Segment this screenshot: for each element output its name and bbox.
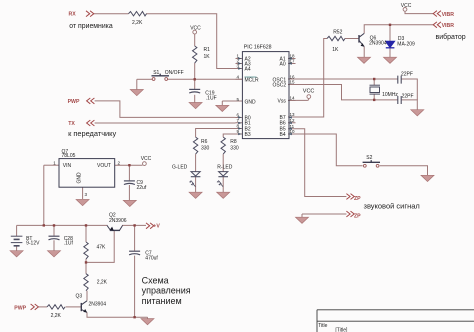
svg-text:B3: B3 (245, 132, 251, 138)
svg-text:+V: +V (153, 224, 160, 230)
svg-text:к передатчику: к передатчику (68, 129, 116, 138)
svg-text:78L05: 78L05 (62, 153, 76, 159)
svg-text:ON/OFF: ON/OFF (165, 70, 184, 76)
svg-text:22uf: 22uf (137, 185, 147, 191)
svg-text:Схема: Схема (142, 276, 169, 286)
svg-text:22PF: 22PF (402, 93, 414, 99)
svg-text:2,2K: 2,2K (51, 313, 62, 319)
svg-text:Title: Title (318, 323, 327, 329)
svg-text:1K: 1K (204, 54, 211, 60)
svg-text:14: 14 (290, 96, 296, 101)
svg-text:VIBR: VIBR (442, 23, 455, 29)
svg-text:12: 12 (290, 118, 296, 123)
svg-text:S1: S1 (153, 70, 159, 76)
svg-text:Q3: Q3 (76, 293, 83, 299)
svg-text:R52: R52 (333, 29, 342, 35)
svg-text:вибратор: вибратор (436, 33, 466, 41)
svg-text:VCC: VCC (401, 3, 412, 9)
svg-text:2,2K: 2,2K (132, 20, 143, 26)
svg-text:R8: R8 (230, 139, 237, 145)
svg-text:OSC2: OSC2 (273, 82, 287, 88)
svg-text:R6: R6 (201, 139, 208, 145)
svg-text:ZP: ZP (354, 196, 361, 202)
svg-text:S2: S2 (366, 155, 372, 161)
svg-text:MA-209: MA-209 (397, 41, 415, 47)
svg-text:.1UF: .1UF (206, 95, 217, 101)
svg-text:.1Uf: .1Uf (64, 241, 74, 247)
svg-text:звуковой сигнал: звуковой сигнал (364, 202, 420, 211)
svg-text:управления: управления (142, 286, 191, 296)
svg-text:10MHz: 10MHz (382, 92, 398, 98)
svg-text:4: 4 (237, 75, 240, 80)
svg-text:A0: A0 (280, 61, 286, 67)
svg-text:VCC: VCC (190, 26, 201, 32)
svg-text:1K: 1K (332, 47, 339, 53)
svg-text:RX: RX (69, 11, 77, 17)
svg-text:2N3904: 2N3904 (89, 302, 107, 308)
svg-text:[Title]: [Title] (335, 328, 348, 332)
svg-text:PIC 16F628: PIC 16F628 (244, 45, 272, 51)
svg-text:TX: TX (68, 121, 75, 127)
svg-text:от приемника: от приемника (69, 23, 113, 30)
svg-text:GND: GND (245, 99, 257, 105)
svg-text:15: 15 (290, 80, 296, 85)
svg-text:22PF: 22PF (401, 71, 413, 77)
svg-text:VOUT: VOUT (97, 163, 111, 169)
svg-text:питанием: питанием (142, 296, 182, 306)
svg-text:2N3904: 2N3904 (369, 41, 387, 47)
svg-text:B6: B6 (280, 121, 286, 127)
svg-text:PWP: PWP (14, 305, 26, 311)
svg-text:A4: A4 (245, 66, 251, 72)
svg-text:47K: 47K (97, 244, 107, 250)
svg-text:R1: R1 (204, 47, 211, 53)
svg-text:ZP: ZP (354, 214, 361, 220)
svg-text:2N3906: 2N3906 (109, 218, 127, 224)
svg-text:VCC: VCC (303, 88, 315, 94)
svg-text:GND: GND (77, 172, 83, 184)
svg-text:2,2K: 2,2K (97, 280, 108, 286)
svg-text:VIBR: VIBR (442, 12, 455, 18)
svg-text:R-LED: R-LED (217, 164, 232, 170)
svg-text:470uf: 470uf (145, 255, 158, 261)
svg-text:3: 3 (85, 192, 88, 197)
svg-text:13: 13 (290, 112, 296, 117)
svg-text:330: 330 (201, 146, 210, 152)
svg-text:B4: B4 (280, 132, 286, 138)
svg-text:9-12V: 9-12V (26, 241, 40, 247)
svg-text:VCC: VCC (141, 156, 152, 162)
svg-text:330: 330 (230, 146, 239, 152)
svg-text:MCLR: MCLR (245, 77, 260, 83)
svg-text:G-LED: G-LED (172, 164, 188, 170)
svg-text:VIN: VIN (63, 163, 72, 169)
svg-text:Vss: Vss (278, 98, 287, 104)
svg-text:PWP: PWP (68, 99, 80, 105)
